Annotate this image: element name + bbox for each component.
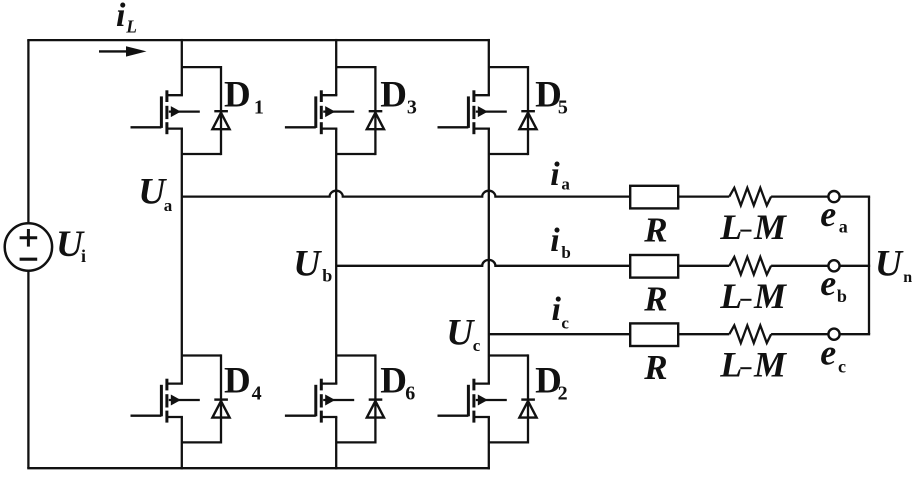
transistor Q6 gate bar	[314, 385, 317, 417]
wire: leg C from lower transistor to bottom rail	[488, 417, 490, 469]
transistor Q3 body arrow	[325, 106, 335, 117]
svg-text:5: 5	[558, 97, 568, 119]
svg-text:L: L	[719, 344, 742, 384]
svg-text:3: 3	[407, 97, 417, 119]
diode D3 triangle	[367, 113, 384, 130]
transistor Q3 source stub	[321, 127, 337, 129]
svg-text:i: i	[552, 291, 562, 328]
terminal circle eb	[828, 260, 839, 271]
svg-text:D: D	[380, 74, 407, 115]
svg-text:L: L	[719, 276, 742, 316]
diode D1 triangle	[212, 113, 229, 130]
transistor Q5 body lead wire	[476, 110, 507, 112]
svg-text:U: U	[875, 243, 904, 284]
transistor Q5 drain branch wire (to body diode D5)	[489, 66, 528, 68]
transistor Q5 source branch wire (from body diode D5)	[489, 153, 528, 155]
wire: leg A from top rail to upper transistor	[181, 39, 183, 95]
svg-text:a: a	[561, 174, 570, 193]
transistor Q3 source branch wire (from body diode D3)	[336, 153, 375, 155]
transistor Q5 channel bar segments	[472, 90, 475, 102]
svg-text:i: i	[81, 246, 86, 266]
transistor Q1 body lead wire	[169, 110, 200, 112]
inductor L-M zigzag phase C	[729, 325, 771, 343]
wire: inductor to terminal phase A	[771, 195, 828, 197]
svg-text:M: M	[753, 207, 788, 247]
wire: top DC rail	[27, 39, 490, 41]
transistor Q3 drain stub	[321, 94, 337, 96]
wire: leg B from lower transistor to bottom rail	[335, 417, 337, 469]
resistor R box phase C	[630, 323, 678, 346]
svg-text:D: D	[224, 360, 251, 401]
transistor Q4 source branch wire (from body diode D4)	[182, 441, 221, 443]
svg-text:L: L	[719, 207, 742, 247]
transistor Q4 drain stub	[167, 382, 183, 384]
current arrow iL	[99, 50, 127, 52]
svg-text:e: e	[820, 263, 836, 303]
transistor Q6 source stub	[321, 416, 337, 418]
wire: inductor to terminal phase B	[771, 265, 828, 267]
wire: neutral bus vertical, node Un	[868, 197, 870, 335]
wire: terminal eb to neutral bus	[840, 265, 871, 267]
transistor Q5 gate bar	[467, 96, 470, 128]
transistor Q3 drain branch wire (to body diode D3)	[336, 66, 375, 68]
voltage source plus sign	[20, 236, 38, 239]
transistor Q2 gate bar	[467, 385, 470, 417]
transistor Q4 source stub	[167, 416, 183, 418]
svg-text:R: R	[643, 348, 667, 387]
voltage source minus sign	[20, 258, 38, 261]
wire: R box to inductor phase A	[678, 195, 729, 197]
body diode D4 branch wire	[220, 354, 222, 443]
wire: terminal ea to neutral bus	[840, 195, 871, 197]
transistor Q2 body arrow	[478, 395, 488, 406]
transistor Q6 body lead wire	[323, 399, 354, 401]
svg-text:M: M	[753, 276, 788, 316]
svg-text:D: D	[380, 360, 407, 401]
svg-text:4: 4	[252, 383, 262, 405]
resistor R box phase A	[630, 186, 678, 209]
diode D4 triangle	[212, 401, 229, 418]
transistor Q1 source stub	[167, 127, 183, 129]
transistor Q2 source stub	[474, 416, 490, 418]
wire: leg B mid section (upper source to lower drain)	[335, 129, 337, 384]
wire: bottom DC rail	[27, 467, 490, 469]
transistor Q3 body lead wire	[323, 110, 354, 112]
transistor Q6 source branch wire (from body diode D6)	[336, 441, 375, 443]
svg-text:i: i	[550, 156, 560, 193]
wire: inductor to terminal phase C	[771, 333, 828, 335]
transistor Q4 body lead wire	[169, 399, 200, 401]
transistor Q5 drain stub	[474, 94, 490, 96]
transistor Q1 gate lead wire	[131, 126, 162, 128]
diode D2 triangle	[519, 401, 536, 418]
transistor Q2 source branch wire (from body diode D2)	[489, 441, 528, 443]
diode D2 cathode bar	[521, 398, 535, 400]
transistor Q1 drain branch wire (to body diode D1)	[182, 66, 221, 68]
svg-text:6: 6	[405, 383, 415, 405]
svg-text:a: a	[164, 196, 173, 215]
svg-text:e: e	[820, 194, 836, 234]
diode D5 cathode bar	[521, 110, 535, 112]
wire: leg B from top rail to upper transistor	[335, 39, 337, 95]
svg-text:R: R	[643, 210, 667, 249]
svg-text:c: c	[838, 357, 846, 377]
svg-text:b: b	[837, 286, 847, 306]
svg-text:R: R	[643, 280, 667, 319]
transistor Q2 channel bar segments	[472, 379, 475, 391]
transistor Q4 gate lead wire	[131, 415, 162, 417]
diode D6 cathode bar	[369, 398, 383, 400]
wire: phase B output with crossover hop, node Ub	[336, 260, 630, 266]
wire: left rail lower segment	[27, 271, 29, 469]
transistor Q5 gate lead wire	[438, 126, 469, 128]
terminal circle ea	[828, 191, 839, 202]
wire: R box to inductor phase B	[678, 265, 729, 267]
svg-text:b: b	[322, 266, 332, 286]
svg-text:1: 1	[254, 97, 264, 119]
transistor Q1 drain stub	[167, 94, 183, 96]
svg-text:L: L	[125, 16, 137, 36]
svg-text:D: D	[224, 74, 251, 115]
transistor Q1 gate bar	[160, 96, 163, 128]
transistor Q2 drain stub	[474, 382, 490, 384]
inductor L-M zigzag phase B	[729, 257, 771, 275]
diode D3 cathode bar	[369, 110, 383, 112]
transistor Q3 gate lead wire	[285, 126, 316, 128]
wire: leg C mid section (upper source to lower drain)	[488, 129, 490, 384]
svg-text:c: c	[561, 313, 569, 332]
wire: leg A mid section (upper source to lower drain)	[181, 129, 183, 384]
transistor Q6 channel bar segments	[320, 379, 323, 391]
transistor Q5 body arrow	[478, 106, 488, 117]
wire: R box to inductor phase C	[678, 333, 729, 335]
svg-text:M: M	[753, 344, 788, 384]
diode D4 cathode bar	[214, 398, 228, 400]
wire: leg C from top rail to upper transistor	[488, 39, 490, 95]
transistor Q2 body lead wire	[476, 399, 507, 401]
svg-text:U: U	[446, 313, 475, 354]
svg-text:U: U	[293, 244, 322, 285]
transistor Q4 gate bar	[160, 385, 163, 417]
transistor Q5 source stub	[474, 127, 490, 129]
transistor Q4 drain branch wire (to body diode D4)	[182, 354, 221, 356]
wire: left rail upper segment	[27, 40, 29, 223]
resistor R box phase B	[630, 255, 678, 278]
wire: phase A output with crossover hops, node Ua	[182, 191, 630, 197]
svg-text:i: i	[116, 0, 126, 34]
inductor L-M zigzag phase A	[729, 188, 771, 206]
svg-text:n: n	[903, 269, 912, 286]
body diode D2 branch wire	[527, 354, 529, 443]
transistor Q4 body arrow	[171, 395, 181, 406]
transistor Q6 gate lead wire	[285, 415, 316, 417]
diode D1 cathode bar	[214, 110, 228, 112]
transistor Q1 channel bar segments	[165, 90, 168, 102]
transistor Q1 source branch wire (from body diode D1)	[182, 153, 221, 155]
transistor Q4 channel bar segments	[165, 379, 168, 391]
svg-text:b: b	[561, 243, 570, 262]
wire: leg A from lower transistor to bottom rail	[181, 417, 183, 469]
svg-text:a: a	[839, 217, 848, 237]
transistor Q6 drain branch wire (to body diode D6)	[336, 354, 375, 356]
voltage source Ui circle	[5, 223, 52, 270]
svg-text:e: e	[820, 333, 836, 373]
transistor Q2 drain branch wire (to body diode D2)	[489, 354, 528, 356]
body diode D5 branch wire	[527, 66, 529, 155]
svg-text:i: i	[550, 222, 560, 259]
body diode D6 branch wire	[374, 354, 376, 443]
wire: phase C output, node Uc	[489, 333, 630, 335]
terminal circle ec	[828, 329, 839, 340]
body diode D1 branch wire	[220, 66, 222, 155]
transistor Q6 body arrow	[325, 395, 335, 406]
svg-text:c: c	[473, 336, 481, 355]
transistor Q3 gate bar	[314, 96, 317, 128]
svg-text:2: 2	[558, 383, 568, 405]
transistor Q6 drain stub	[321, 382, 337, 384]
transistor Q3 channel bar segments	[320, 90, 323, 102]
transistor Q1 body arrow	[171, 106, 181, 117]
body diode D3 branch wire	[374, 66, 376, 155]
wire: terminal ec to neutral bus	[840, 333, 871, 335]
diode D6 triangle	[367, 401, 384, 418]
transistor Q2 gate lead wire	[438, 415, 469, 417]
diode D5 triangle	[519, 113, 536, 130]
